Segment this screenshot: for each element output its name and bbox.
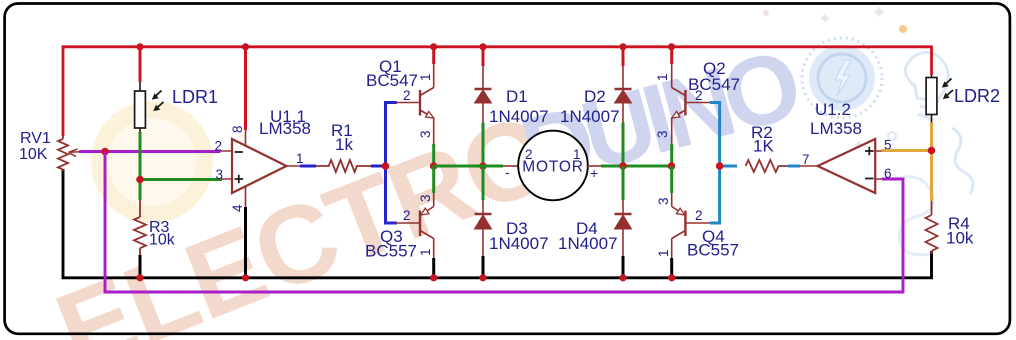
svg-text:RV1: RV1 bbox=[20, 130, 51, 147]
junction VCC/LDR1 bbox=[136, 43, 143, 50]
junction Q4/ground bbox=[668, 274, 675, 281]
svg-text:BC557: BC557 bbox=[687, 241, 739, 260]
wire LDR2 to R4 (orange net) bbox=[930, 123, 933, 202]
svg-text:6: 6 bbox=[884, 166, 892, 181]
wire motor-right node to D4 cathode (green) bbox=[622, 166, 625, 200]
wire Q1 emitter to motor-left node (green) bbox=[432, 144, 435, 166]
wire motor-left node (green) bbox=[434, 165, 503, 168]
photoresistor LDR1 bbox=[139, 82, 141, 132]
junction Q3/ground bbox=[430, 274, 437, 281]
wire VCC to D1 cathode (red) bbox=[482, 46, 485, 66]
svg-text:1N4007: 1N4007 bbox=[489, 234, 549, 253]
wire RV1 wiper to U1.1 pin 2 (magenta net) bbox=[79, 150, 221, 153]
wire Q2 collector to VCC (red) bbox=[670, 46, 673, 64]
wire Q1 collector to VCC (red) bbox=[432, 46, 435, 64]
junction VCC/Q2 bbox=[668, 43, 675, 50]
svg-text:3: 3 bbox=[418, 194, 433, 202]
svg-text:LDR2: LDR2 bbox=[954, 86, 1000, 106]
wire LDR1 to R3 and U1.1 pin 3 (green net) bbox=[140, 132, 222, 200]
svg-text:2: 2 bbox=[403, 208, 411, 223]
svg-text:3: 3 bbox=[655, 130, 670, 138]
resistor R1 bbox=[316, 160, 371, 172]
junction LDR2/R4/pin5 node bbox=[928, 147, 936, 155]
wire U1.1 pin 4 to ground (black) bbox=[245, 187, 247, 207]
svg-text:BC557: BC557 bbox=[365, 242, 417, 261]
junction wiper/feedback node bbox=[101, 148, 109, 156]
svg-text:1: 1 bbox=[656, 249, 671, 257]
wire D1 anode to motor-left node (green) bbox=[482, 123, 485, 167]
junction VCC/D1 bbox=[479, 43, 486, 50]
wire U1.1 pin 1 output (blue net) bbox=[300, 165, 316, 168]
svg-text:10k: 10k bbox=[946, 229, 974, 248]
wire Q4 collector to ground (black) bbox=[670, 258, 673, 277]
svg-text:2: 2 bbox=[695, 208, 703, 223]
transistor Q1 bbox=[395, 64, 434, 144]
wire R1 to Q1/Q3 bases (blue net) bbox=[386, 103, 398, 224]
junction VCC/pin8 bbox=[242, 43, 249, 50]
junction Q2/motor-right node bbox=[668, 162, 676, 170]
svg-text:3: 3 bbox=[216, 167, 224, 182]
wire Q3 collector to ground (black) bbox=[432, 258, 435, 277]
wire R2 to U1.2 pin 7 (cyan) bbox=[788, 165, 800, 168]
junction R1/base net bbox=[382, 162, 390, 170]
svg-text:1: 1 bbox=[296, 151, 304, 166]
svg-text:D2: D2 bbox=[584, 87, 606, 106]
wire D3 anode to ground (black) bbox=[482, 256, 485, 277]
svg-text:2: 2 bbox=[215, 139, 223, 154]
junction base net/R2 bbox=[716, 162, 724, 170]
wire Q2/Q4 base net (cyan) bbox=[710, 103, 720, 224]
wire VCC to U1.1 pin 8 (red) bbox=[244, 46, 247, 130]
resistor RV1 (potentiometer) bbox=[58, 136, 92, 171]
junction pin4/ground bbox=[242, 274, 249, 281]
photoresistor LDR2 bbox=[931, 75, 933, 123]
svg-text:7: 7 bbox=[802, 152, 810, 167]
svg-text:LM358: LM358 bbox=[810, 119, 862, 138]
svg-text:U1.2: U1.2 bbox=[815, 100, 851, 119]
op-amp U1.1 bbox=[232, 139, 287, 193]
wire motor-right node (green) bbox=[587, 165, 602, 167]
junction R3/ground bbox=[136, 274, 143, 281]
svg-text:2: 2 bbox=[403, 88, 411, 103]
resistor R4 bbox=[926, 201, 938, 254]
resistor R3 bbox=[134, 200, 146, 258]
svg-text:1k: 1k bbox=[335, 135, 353, 154]
wire Q3 emitter to motor-left node (green) bbox=[432, 166, 435, 193]
svg-text:-: - bbox=[505, 164, 510, 180]
junction VCC/D2 bbox=[619, 43, 626, 50]
resistor R2 bbox=[746, 160, 788, 172]
svg-text:2: 2 bbox=[695, 88, 703, 103]
diode D2 bbox=[622, 46, 624, 89]
junction Q1/motor-left node bbox=[430, 162, 438, 170]
junction D2/motor-right node bbox=[619, 162, 627, 170]
svg-text:8: 8 bbox=[230, 125, 245, 133]
wire VCC to LDR1 (red) bbox=[139, 46, 142, 82]
svg-text:+: + bbox=[590, 165, 598, 181]
transistor Q2 bbox=[672, 64, 712, 144]
wire VCC top rail (red) bbox=[63, 47, 932, 136]
junction D4/ground bbox=[619, 274, 626, 281]
svg-text:3: 3 bbox=[656, 197, 671, 205]
svg-text:1N4007: 1N4007 bbox=[560, 107, 620, 126]
op-amp U1.2 bbox=[818, 139, 876, 193]
motor M1 bbox=[518, 131, 588, 201]
wire D4 anode to ground (black) bbox=[622, 256, 625, 277]
transistor Q4 bbox=[672, 193, 712, 260]
wire U1.2 pin 5 to LDR2/R4 node (orange) bbox=[882, 149, 932, 152]
wire Q2 emitter to motor-right node (green) bbox=[670, 144, 673, 166]
svg-text:10K: 10K bbox=[19, 146, 48, 163]
svg-text:1: 1 bbox=[418, 73, 433, 81]
wire D2 anode to motor-right node (green) bbox=[622, 123, 625, 167]
junction LDR1/R3/pin3 node bbox=[136, 176, 144, 184]
junction VCC/Q1 bbox=[430, 43, 437, 50]
svg-text:1: 1 bbox=[655, 73, 670, 81]
svg-text:1K: 1K bbox=[753, 137, 774, 156]
svg-text:1: 1 bbox=[418, 248, 433, 256]
svg-text:10k: 10k bbox=[149, 232, 176, 249]
wire Q4 emitter to motor-right node (green) bbox=[670, 166, 673, 193]
svg-text:D1: D1 bbox=[506, 87, 528, 106]
transistor Q3 bbox=[395, 193, 434, 260]
wire feedback loop from U1.2 pin 6 (magenta net) bbox=[105, 152, 903, 293]
svg-text:1N4007: 1N4007 bbox=[489, 107, 549, 126]
diode D3 bbox=[482, 200, 484, 214]
wire ground bottom rail (black) bbox=[63, 169, 932, 278]
diode D4 bbox=[622, 200, 624, 214]
svg-text:1: 1 bbox=[573, 147, 581, 162]
wire VCC to D2 cathode (red) bbox=[622, 46, 625, 66]
junction D1/motor-left node bbox=[479, 162, 487, 170]
junction D3/ground bbox=[479, 274, 486, 281]
svg-text:3: 3 bbox=[418, 130, 433, 138]
svg-text:1N4007: 1N4007 bbox=[558, 234, 618, 253]
svg-text:2: 2 bbox=[525, 147, 533, 162]
wire motor-left node to D3 cathode (green) bbox=[482, 166, 485, 200]
svg-text:LDR1: LDR1 bbox=[172, 87, 218, 107]
svg-text:4: 4 bbox=[230, 204, 245, 212]
diode D1 bbox=[482, 46, 484, 89]
svg-text:LM358: LM358 bbox=[259, 119, 311, 138]
